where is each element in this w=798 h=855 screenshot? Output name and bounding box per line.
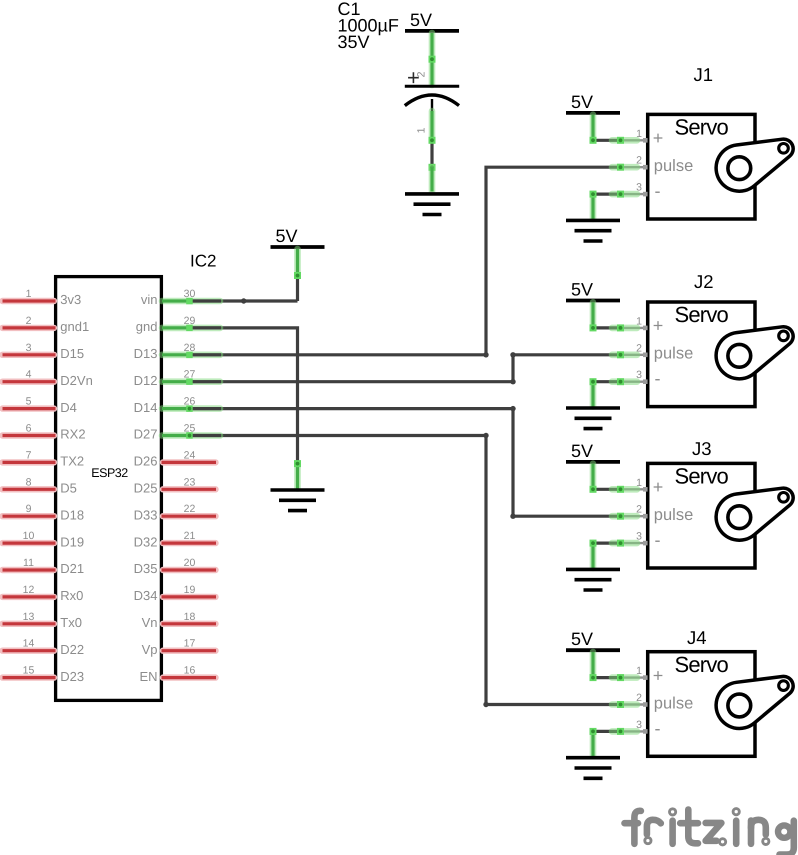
svg-text:3: 3 bbox=[26, 342, 32, 354]
svg-text:26: 26 bbox=[184, 396, 196, 408]
svg-text:13: 13 bbox=[23, 611, 35, 623]
junction D14 corner bbox=[510, 406, 515, 411]
svg-text:Vp: Vp bbox=[142, 642, 158, 657]
svg-text:2: 2 bbox=[26, 315, 32, 327]
wire J4 pin3 to ground bbox=[593, 730, 621, 733]
IC2 pin 18 (Vn) bbox=[142, 611, 216, 630]
IC2 pin 7 (TX2) bbox=[3, 449, 85, 468]
IC2 pin 17 (Vp) bbox=[142, 638, 216, 657]
svg-text:J3: J3 bbox=[692, 438, 712, 459]
IC IC2 ESP32 body bbox=[56, 277, 162, 701]
svg-text:23: 23 bbox=[184, 476, 196, 488]
svg-text:7: 7 bbox=[26, 449, 32, 461]
svg-text:J1: J1 bbox=[694, 64, 714, 85]
svg-text:5V: 5V bbox=[571, 441, 593, 461]
IC2 pin 5 (D4) bbox=[3, 396, 77, 415]
svg-text:-: - bbox=[655, 369, 661, 389]
svg-text:20: 20 bbox=[184, 557, 196, 569]
svg-text:3: 3 bbox=[636, 719, 642, 731]
fritzing logo bbox=[625, 810, 794, 855]
wire C1 5V lead (green) bbox=[429, 33, 436, 59]
J3 pin 3 (-) bbox=[612, 530, 661, 550]
wire 5V lead to vin (green) bbox=[294, 249, 301, 276]
svg-text:Rx0: Rx0 bbox=[60, 588, 83, 603]
svg-text:17: 17 bbox=[184, 638, 196, 650]
wire 5V lead J1 (green) bbox=[590, 115, 597, 141]
J2 pin 3 (-) bbox=[612, 369, 661, 389]
IC2 pin 6 (RX2) bbox=[3, 423, 86, 442]
svg-text:14: 14 bbox=[23, 638, 35, 650]
svg-text:5V: 5V bbox=[571, 629, 593, 649]
svg-text:pulse: pulse bbox=[654, 345, 693, 363]
svg-text:1: 1 bbox=[636, 128, 642, 140]
svg-text:D27: D27 bbox=[134, 427, 158, 442]
svg-text:3v3: 3v3 bbox=[60, 292, 81, 307]
svg-text:2: 2 bbox=[636, 342, 642, 354]
IC2 pin 8 (D5) bbox=[3, 476, 77, 495]
svg-text:15: 15 bbox=[23, 665, 35, 677]
svg-text:D23: D23 bbox=[60, 669, 84, 684]
svg-text:D21: D21 bbox=[60, 561, 84, 576]
connector J1 Servo body bbox=[648, 114, 755, 219]
svg-text:D15: D15 bbox=[60, 346, 84, 361]
IC2 pin 16 (EN) bbox=[139, 665, 216, 684]
svg-text:3: 3 bbox=[636, 182, 642, 194]
svg-text:J2: J2 bbox=[694, 271, 714, 292]
IC2 pin 1 (3v3) bbox=[3, 288, 82, 307]
wire ground lead J3 (green) bbox=[590, 543, 597, 568]
wire 5V lead J4 (green) bbox=[590, 652, 597, 678]
J4 pin 2 (pulse) bbox=[612, 692, 693, 712]
svg-text:D14: D14 bbox=[134, 400, 158, 415]
power +5V symbol for J3 + bbox=[566, 441, 620, 462]
J3 pin 1 (+) bbox=[612, 477, 663, 497]
svg-text:D34: D34 bbox=[134, 588, 158, 603]
svg-text:5V: 5V bbox=[276, 226, 298, 246]
svg-text:TX2: TX2 bbox=[60, 454, 84, 469]
capacitor C1 bbox=[405, 65, 459, 133]
J1 pin 3 (-) bbox=[612, 181, 661, 201]
IC2 pin 30 (vin) bbox=[141, 288, 221, 307]
wire J1 pin3 to ground bbox=[593, 193, 621, 196]
IC2 pin 24 (D26) bbox=[134, 449, 216, 468]
servo horn icon J4 bbox=[716, 676, 793, 728]
svg-text:Servo: Servo bbox=[675, 115, 729, 140]
wire J2 pin3 to ground bbox=[593, 380, 621, 383]
svg-text:D12: D12 bbox=[134, 373, 158, 388]
svg-text:D22: D22 bbox=[60, 642, 84, 657]
svg-text:D5: D5 bbox=[60, 481, 77, 496]
power +5V symbol for J4 + bbox=[566, 629, 620, 650]
junction D27 corner bbox=[483, 433, 488, 438]
svg-text:D32: D32 bbox=[134, 534, 158, 549]
svg-text:Servo: Servo bbox=[675, 464, 729, 489]
svg-text:pulse: pulse bbox=[654, 694, 693, 712]
svg-text:D33: D33 bbox=[134, 507, 158, 522]
svg-text:D26: D26 bbox=[134, 454, 158, 469]
IC2 pin 26 (D14) bbox=[134, 396, 221, 415]
wire J3 pin3 to ground bbox=[593, 541, 621, 544]
svg-text:D25: D25 bbox=[134, 481, 158, 496]
IC2 pin 9 (D18) bbox=[3, 503, 85, 522]
svg-text:D19: D19 bbox=[60, 534, 84, 549]
svg-text:gnd: gnd bbox=[136, 319, 158, 334]
svg-text:D2Vn: D2Vn bbox=[60, 373, 93, 388]
IC2 pin 28 (D13) bbox=[134, 342, 221, 361]
svg-text:+: + bbox=[653, 128, 664, 148]
J1 pin 2 (pulse) bbox=[612, 155, 693, 175]
svg-text:Vn: Vn bbox=[142, 615, 158, 630]
svg-text:11: 11 bbox=[23, 557, 34, 569]
svg-text:D35: D35 bbox=[134, 561, 158, 576]
IC2 pin 25 (D27) bbox=[134, 423, 221, 442]
wire D14 to J3 pulse bbox=[189, 409, 620, 517]
IC2 pin 12 (Rx0) bbox=[3, 584, 84, 603]
svg-text:25: 25 bbox=[184, 423, 196, 435]
ground symbol GND J1 bbox=[566, 220, 620, 241]
IC2 pin 19 (D34) bbox=[134, 584, 216, 603]
junction vin wire bbox=[241, 298, 246, 303]
wire C1 pin1 lead (green) bbox=[429, 111, 436, 140]
power +5V symbol for J2 + bbox=[566, 280, 620, 301]
wire D27 to J4 pulse bbox=[189, 436, 620, 705]
junction D12 corner bbox=[510, 379, 515, 384]
svg-text:6: 6 bbox=[26, 423, 32, 435]
junction D13 bbox=[483, 352, 488, 357]
IC2 pin 13 (Tx0) bbox=[3, 611, 82, 630]
svg-text:RX2: RX2 bbox=[60, 427, 85, 442]
svg-text:5V: 5V bbox=[571, 280, 593, 300]
svg-text:-: - bbox=[655, 181, 661, 201]
svg-text:3: 3 bbox=[636, 369, 642, 381]
wire ground lead (green) bbox=[294, 464, 301, 489]
svg-text:2: 2 bbox=[636, 155, 642, 167]
svg-text:1: 1 bbox=[636, 315, 642, 327]
wire D13 to J1 pulse bbox=[189, 167, 620, 355]
svg-text:1: 1 bbox=[636, 477, 642, 489]
connector J2 Servo body bbox=[648, 302, 755, 407]
servo horn icon J3 bbox=[716, 488, 793, 540]
ground symbol GND J4 bbox=[566, 758, 620, 779]
IC2 pin 22 (D33) bbox=[134, 503, 216, 522]
servo horn icon J1 bbox=[716, 139, 793, 191]
svg-text:+: + bbox=[653, 665, 664, 685]
IC2 pin 21 (D32) bbox=[134, 530, 216, 549]
svg-text:+: + bbox=[653, 477, 664, 497]
svg-text:24: 24 bbox=[184, 449, 196, 461]
svg-text:22: 22 bbox=[184, 503, 196, 515]
svg-text:3: 3 bbox=[636, 531, 642, 543]
IC2 pin 23 (D25) bbox=[134, 476, 216, 495]
J2 pin 2 (pulse) bbox=[612, 342, 693, 362]
J3 pin 2 (pulse) bbox=[612, 504, 693, 524]
svg-text:pulse: pulse bbox=[654, 157, 693, 175]
svg-text:5: 5 bbox=[26, 396, 32, 408]
svg-text:2: 2 bbox=[416, 71, 428, 77]
wire ground lead J2 (green) bbox=[590, 382, 597, 407]
wire 5V to J4 pin1 bbox=[593, 676, 621, 679]
svg-text:27: 27 bbox=[184, 369, 196, 381]
svg-text:30: 30 bbox=[184, 288, 196, 300]
svg-text:5V: 5V bbox=[410, 10, 432, 30]
svg-text:18: 18 bbox=[184, 611, 196, 623]
svg-text:EN: EN bbox=[139, 669, 157, 684]
svg-text:29: 29 bbox=[184, 315, 196, 327]
ground symbol GND J3 bbox=[566, 569, 620, 590]
IC2 pin 11 (D21) bbox=[3, 557, 85, 576]
IC2 pin 2 (gnd1) bbox=[3, 315, 90, 334]
svg-text:Servo: Servo bbox=[675, 302, 729, 327]
connector J3 Servo body bbox=[648, 463, 755, 568]
wire ground lead J4 (green) bbox=[590, 731, 597, 756]
svg-text:10: 10 bbox=[23, 530, 35, 542]
servo horn icon J2 bbox=[716, 327, 793, 379]
wire vin horizontal bbox=[189, 299, 298, 302]
IC2 pin 15 (D23) bbox=[3, 665, 85, 684]
svg-text:-: - bbox=[655, 530, 661, 550]
wire 5V to J1 pin1 bbox=[593, 139, 621, 142]
svg-text:vin: vin bbox=[141, 292, 158, 307]
svg-text:2: 2 bbox=[636, 692, 642, 704]
svg-text:IC2: IC2 bbox=[190, 252, 216, 271]
IC2 pin 29 (gnd) bbox=[136, 315, 221, 334]
svg-text:5V: 5V bbox=[571, 92, 593, 112]
wire C1 to ground bbox=[430, 140, 433, 167]
wire gnd to ground bbox=[189, 328, 298, 464]
svg-text:16: 16 bbox=[184, 665, 196, 677]
ground symbol GND J2 bbox=[566, 408, 620, 429]
svg-text:D13: D13 bbox=[134, 346, 158, 361]
svg-text:pulse: pulse bbox=[654, 506, 693, 524]
power +5V symbol P1 for C1 bbox=[405, 10, 459, 31]
svg-text:J4: J4 bbox=[687, 627, 707, 648]
svg-text:Tx0: Tx0 bbox=[60, 615, 82, 630]
svg-text:Servo: Servo bbox=[675, 652, 729, 677]
wire 5V to J3 pin1 bbox=[593, 488, 621, 491]
svg-text:D4: D4 bbox=[60, 400, 77, 415]
wire 5V lead J2 (green) bbox=[590, 302, 597, 328]
connector J4 Servo body bbox=[648, 652, 755, 757]
svg-text:gnd1: gnd1 bbox=[60, 319, 89, 334]
wire ground lead (green) bbox=[429, 167, 436, 191]
junction C1 top wire bbox=[429, 59, 436, 85]
svg-text:4: 4 bbox=[26, 369, 32, 381]
wire 5V to J2 pin1 bbox=[593, 326, 621, 329]
svg-text:2: 2 bbox=[636, 504, 642, 516]
svg-text:+: + bbox=[653, 316, 664, 336]
power +5V symbol P2 for IC2 vin bbox=[271, 226, 325, 247]
ground symbol GND IC2 bbox=[271, 490, 325, 511]
wire vin vertical bbox=[296, 276, 299, 302]
IC2 pin 10 (D19) bbox=[3, 530, 85, 549]
ground symbol GND C1 bbox=[405, 194, 459, 215]
IC2 pin 20 (D35) bbox=[134, 557, 216, 576]
IC2 pin 14 (D22) bbox=[3, 638, 85, 657]
svg-text:28: 28 bbox=[184, 342, 196, 354]
svg-text:8: 8 bbox=[26, 476, 32, 488]
svg-text:ESP32: ESP32 bbox=[91, 466, 128, 480]
svg-text:-: - bbox=[655, 718, 661, 738]
J4 pin 3 (-) bbox=[612, 718, 661, 738]
svg-text:12: 12 bbox=[23, 584, 35, 596]
IC2 pin 3 (D15) bbox=[3, 342, 85, 361]
svg-text:21: 21 bbox=[184, 530, 196, 542]
svg-text:D18: D18 bbox=[60, 507, 84, 522]
svg-text:35V: 35V bbox=[338, 32, 370, 52]
IC2 pin 27 (D12) bbox=[134, 369, 221, 388]
wire D12 to J2 pulse bbox=[189, 355, 620, 382]
IC2 pin 4 (D2Vn) bbox=[3, 369, 93, 388]
J1 pin 1 (+) bbox=[612, 128, 663, 148]
svg-text:9: 9 bbox=[26, 503, 32, 515]
svg-text:1: 1 bbox=[416, 127, 428, 133]
J4 pin 1 (+) bbox=[612, 665, 663, 685]
J2 pin 1 (+) bbox=[612, 315, 663, 335]
power +5V symbol for J1 + bbox=[566, 92, 620, 113]
svg-text:1: 1 bbox=[636, 665, 642, 677]
svg-text:1: 1 bbox=[26, 288, 32, 300]
wire 5V lead J3 (green) bbox=[590, 464, 597, 490]
svg-text:19: 19 bbox=[184, 584, 196, 596]
wire ground lead J1 (green) bbox=[590, 194, 597, 219]
